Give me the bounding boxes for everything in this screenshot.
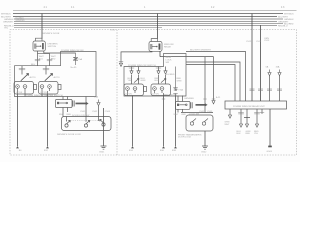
switch unit S3 (124, 78, 147, 95)
switch K1 (65, 117, 70, 128)
svg-text:10A: 10A (94, 96, 98, 99)
U3 out wire O6 ground (269, 109, 271, 146)
terminal S4 (162, 146, 165, 148)
ground G2 (202, 146, 208, 149)
arrow divider wire (119, 61, 122, 67)
svg-text:AUTO: AUTO (30, 76, 36, 79)
bus drop R1 (251, 14, 253, 101)
O4 tick (254, 113, 260, 114)
feed wire SW6 (165, 67, 167, 85)
bus wire L5 (14, 22, 283, 24)
ground wire GW2 (204, 131, 206, 146)
switch K5 (202, 119, 208, 126)
switch K3 (99, 117, 106, 127)
fuse feed R4 arrow (278, 70, 281, 76)
arrow SW4 (137, 71, 140, 74)
passenger box F outline (124, 54, 186, 97)
feed wire SW1 (21, 66, 23, 75)
fuse feed R3 arrow (268, 70, 271, 76)
svg-text:GRNRED: GRNRED (246, 131, 251, 135)
O2 tick (238, 113, 244, 114)
svg-text:POWER WINDOW MASTER SWITCH: POWER WINDOW MASTER SWITCH (25, 94, 63, 97)
lock switch box E (62, 117, 112, 131)
svg-text:RED: RED (67, 114, 72, 116)
wire F2 out (175, 96, 177, 147)
arrow SW5 (157, 71, 160, 74)
svg-text:C563: C563 (105, 111, 111, 113)
G box top bar (181, 110, 213, 113)
dashed divider driver door (116, 30, 118, 155)
connector U2 loop (151, 39, 157, 42)
svg-text:RED/BLU: RED/BLU (278, 25, 288, 27)
passenger lock actuator M2 feeds (178, 96, 183, 102)
tick branch A (35, 60, 40, 61)
lever S1 (21, 73, 29, 80)
M2 stub tip (205, 103, 208, 106)
svg-text:LOCK SW: LOCK SW (189, 114, 200, 116)
svg-text:DRIVER'S DOOR: DRIVER'S DOOR (42, 33, 60, 35)
svg-text:BLU/RED: BLU/RED (165, 74, 175, 76)
svg-text:BLU/WHT GRN/WHT: BLU/WHT GRN/WHT (190, 50, 212, 52)
svg-text:DOOR LOCK SW: DOOR LOCK SW (72, 115, 90, 117)
O4 arrow (255, 124, 258, 127)
driver lock actuator M1 (56, 100, 75, 108)
connector U1 driver window relay (33, 41, 45, 51)
fuse ref arrow (97, 100, 100, 106)
O5 tick (260, 112, 264, 114)
svg-text:DRIVER'S DOOR LOCK: DRIVER'S DOOR LOCK (57, 134, 81, 136)
O1 arrow (228, 115, 231, 118)
feed wire SW2 (45, 66, 47, 75)
svg-text:REDGRN: REDGRN (177, 78, 182, 82)
svg-text:C562: C562 (92, 111, 98, 113)
svg-text:BLUBLK: BLUBLK (237, 131, 242, 135)
M2 stub arrow (196, 104, 206, 106)
bus wire L6 (14, 24, 277, 26)
bus wire L1 WHT/BLK (13, 13, 283, 15)
terminal S2 (46, 146, 49, 148)
bus wire L4 (14, 20, 277, 22)
svg-text:WHT: WHT (59, 114, 65, 116)
svg-text:UP DN: UP DN (126, 94, 133, 96)
passenger lock actuator M2 (176, 102, 193, 110)
U3 out wire O3 (244, 109, 250, 124)
M1 stub arrow (76, 103, 87, 105)
feed wire SW5 (158, 67, 160, 85)
U3 out wire O5 (261, 109, 263, 114)
tick SW3 (129, 67, 134, 69)
O2 arrow (239, 124, 242, 127)
wire S1 out (17, 94, 19, 146)
mid horizontal wire M1 (160, 56, 214, 58)
M1 below stubs (63, 108, 68, 117)
relay box U3 (225, 101, 287, 109)
S4 out tick (162, 98, 165, 100)
svg-text:POWER WINDOW SWITCH: POWER WINDOW SWITCH (128, 65, 156, 67)
svg-text:UP DN: UP DN (16, 92, 23, 94)
R4 tick (277, 89, 282, 90)
wire branch B (49, 54, 51, 66)
lock switch box G (186, 115, 213, 131)
svg-text:C512: C512 (256, 41, 262, 43)
svg-text:GRNWHT: GRNWHT (225, 122, 231, 126)
wire U2 right pin down (159, 51, 161, 56)
mid horizontal wire M3 (186, 62, 240, 101)
mid wire M1 drop (213, 57, 215, 101)
box E link dash (66, 120, 100, 122)
bus drop R2 (260, 25, 262, 101)
fuse F1 (73, 53, 78, 65)
svg-text:UP DN: UP DN (41, 92, 48, 94)
arrow SW3 (130, 71, 133, 74)
arrow M1 (212, 101, 215, 104)
R1 tick (250, 89, 255, 90)
svg-text:C512: C512 (110, 29, 116, 31)
driver lock actuator M1 feeds (63, 97, 68, 100)
switch unit S2 (39, 82, 62, 97)
U3 out wire O1 (229, 109, 231, 115)
tick SW2 (43, 69, 49, 70)
svg-text:GRN/RED: GRN/RED (16, 20, 26, 22)
svg-text:7.5A: 7.5A (178, 89, 183, 92)
feed ticks (203, 98, 215, 100)
terminal F2 (174, 146, 177, 148)
ground wire GW1 (103, 108, 105, 146)
wire U2 left pin left (121, 51, 152, 60)
top rule (13, 9, 297, 11)
arrow SW6 (164, 71, 167, 74)
svg-text:A 21: A 21 (216, 96, 221, 99)
tick branch B (47, 60, 52, 61)
feed wire SW3 (131, 67, 133, 85)
svg-text:C561: C561 (80, 111, 86, 113)
svg-text:10A: 10A (276, 66, 280, 69)
M1 stub tip (86, 102, 89, 105)
fuse feed R3 wire (269, 76, 271, 101)
M2 below stubs (178, 109, 183, 112)
mid horizontal wire M4 (186, 65, 235, 102)
tick SW5 (156, 67, 161, 69)
wire U1 right pin to fuse (44, 51, 76, 53)
svg-text:WHT/BLK: WHT/BLK (1, 14, 11, 16)
svg-text:WHT/BLK: WHT/BLK (284, 14, 294, 16)
fuse ref wire (98, 106, 100, 117)
svg-text:POWER WINDOW RELAY UNIT: POWER WINDOW RELAY UNIT (233, 105, 265, 108)
wire S3 out (132, 96, 134, 147)
switch unit S1 (14, 82, 37, 97)
U3 out wire O2 (240, 109, 242, 124)
bus wire L2 (13, 15, 277, 17)
R3 tick (267, 89, 272, 90)
switch K4 (190, 119, 196, 126)
U3 out wire O4 (256, 109, 258, 124)
ground G1 (101, 146, 107, 149)
svg-text:RED: RED (182, 114, 187, 116)
connector U1 loop (36, 38, 43, 41)
fuse F2 (173, 67, 177, 96)
wire U1 left pin down (37, 51, 39, 66)
svg-text:G501: G501 (99, 152, 105, 154)
svg-text:G503: G503 (267, 151, 273, 153)
svg-text:7.5A: 7.5A (78, 58, 83, 61)
tick divider wire (119, 60, 123, 62)
mid horizontal wire M2 (186, 52, 246, 102)
connector U2 window relay (149, 42, 162, 52)
switch K2 (84, 117, 89, 128)
fuse feed R4 wire (279, 76, 281, 101)
wire bus drop to U1 (41, 14, 43, 39)
O3 arrow (245, 124, 248, 127)
svg-text:POWER WINDOW SW: POWER WINDOW SW (61, 50, 85, 52)
switch unit S4 (151, 78, 171, 95)
R2 tick (258, 89, 263, 90)
terminal S3 (131, 146, 134, 148)
ground G3 tick (268, 146, 272, 148)
dashed body border (10, 30, 297, 155)
wire G box feed1 (204, 57, 206, 110)
wire S4 out (163, 96, 165, 147)
svg-text:UP DN: UP DN (153, 94, 160, 96)
master switch box outline (15, 52, 97, 97)
lever S2 (45, 73, 53, 80)
svg-text:G502: G502 (201, 152, 207, 154)
box B feed wire (85, 97, 87, 117)
terminal S1 (16, 146, 19, 148)
svg-text:WHT: WHT (174, 114, 180, 116)
wire bus drop to U2 (157, 14, 159, 39)
svg-text:C512: C512 (246, 41, 252, 43)
bus wire L7 (14, 26, 162, 28)
wire S2 out (47, 94, 49, 146)
svg-text:GRN/WHT: GRN/WHT (3, 21, 14, 23)
node split bar (38, 53, 50, 55)
svg-text:AUTO: AUTO (54, 76, 60, 79)
feed wire SW4 (138, 67, 140, 85)
tick SW1 (19, 69, 25, 70)
svg-text:GRN/RED: GRN/RED (184, 98, 195, 100)
svg-text:No.35: No.35 (71, 67, 78, 69)
bus wire L3 (14, 18, 283, 20)
